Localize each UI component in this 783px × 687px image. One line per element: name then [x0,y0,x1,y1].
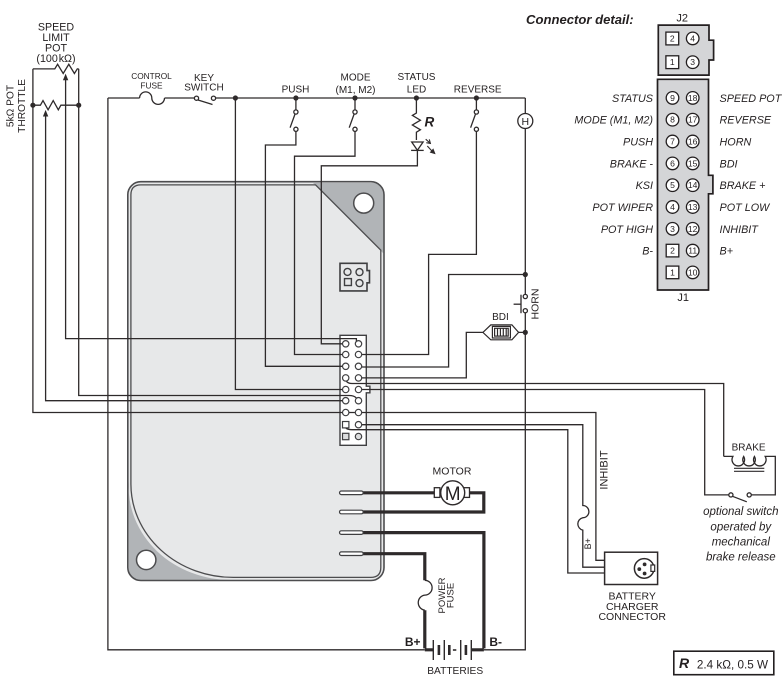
wire MODE to pin 8 [295,131,356,354]
svg-text:KSI: KSI [636,180,653,192]
controller mounting hole top-right [354,193,374,213]
node MODE junction [352,95,357,100]
wire B- thick to battery [362,533,484,650]
svg-text:9: 9 [670,93,675,103]
resistor R [412,98,420,140]
connector J2 on controller (2x2) [340,263,370,291]
wire throttle wiper to pin 4 [46,115,346,401]
svg-text:B+: B+ [405,635,421,649]
LED D1 [411,139,435,154]
svg-text:LED: LED [407,85,426,96]
power fuse F2 [418,580,432,610]
wire B+ thick with power fuse [362,554,425,581]
switch brake release [729,493,752,502]
svg-text:B+: B+ [583,538,593,549]
svg-text:brake release: brake release [706,551,776,563]
wire B+ pin 11 to charger [359,425,605,568]
svg-text:4: 4 [670,202,675,212]
key switch S1 [194,96,215,104]
svg-text:FUSE: FUSE [140,81,163,91]
wire speed pot wiper to pin 18 [66,79,357,344]
svg-text:BATTERIES: BATTERIES [427,666,483,677]
label control fuse [131,71,172,91]
pushbutton HORN [514,294,528,313]
node throttle left junction [30,103,35,108]
wire H drop [484,98,525,650]
svg-text:2: 2 [670,246,675,256]
label optional switch text [703,506,778,564]
svg-text:R: R [679,655,690,671]
connector detail right labels [720,93,783,258]
connector detail J1 box [658,79,713,290]
motor terminal tab B- [340,531,364,535]
svg-text:13: 13 [688,202,698,212]
label battery charger connector [598,591,666,624]
label 5k throttle [6,79,29,133]
motor M [362,481,484,512]
node PUSH junction [293,95,298,100]
connector detail J1 pins [666,92,699,279]
svg-text:MODE (M1, M2): MODE (M1, M2) [574,115,653,127]
svg-text:POT HIGH: POT HIGH [601,224,653,236]
svg-text:INHIBIT: INHIBIT [599,450,611,489]
svg-text:BDI: BDI [492,312,509,323]
label status led [398,72,436,96]
label mode [336,73,376,97]
connector J1 pins on controller [343,341,362,440]
wire BRAKE- pin 6 to coil [346,380,724,457]
svg-text:MODE: MODE [341,73,371,84]
wire top bus [108,97,525,99]
controller mounting hole bottom-left [137,550,156,569]
svg-text:optional switch: optional switch [703,506,778,518]
svg-text:Connector detail:: Connector detail: [526,12,634,27]
svg-text:THROTTLE: THROTTLE [17,79,28,133]
svg-text:7: 7 [670,137,675,147]
wire pot low rail to pin 13 [79,69,359,400]
svg-text:3: 3 [690,57,695,67]
svg-text:J1: J1 [677,292,689,304]
svg-text:6: 6 [670,158,675,168]
battery pack [433,640,471,660]
node REVERSE junction [474,95,479,100]
battery charger connector [605,552,658,584]
svg-text:SWITCH: SWITCH [184,83,223,94]
switch MODE [349,98,357,131]
wire left B+ loop [108,98,425,650]
R value box [674,651,774,675]
wire B- pin 2 to charger [346,428,605,573]
connector detail J2 box [658,25,713,75]
svg-text:HORN: HORN [530,289,542,320]
connector J1 on controller (2x9) [340,335,370,445]
svg-text:REVERSE: REVERSE [720,115,772,127]
svg-text:BDI: BDI [720,158,738,170]
svg-text:11: 11 [688,246,697,256]
node HORN top junction [523,272,528,277]
BDI gauge symbol [483,325,519,340]
node STATUS junction [414,95,419,100]
node BDI junction [523,330,528,335]
svg-text:14: 14 [688,180,698,190]
svg-text:REVERSE: REVERSE [454,85,502,96]
svg-text:PUSH: PUSH [282,85,310,96]
wire REVERSE to pin 17 [359,131,477,354]
wire pot high rail to pin 3 and INHIBIT pin 12 [33,69,605,560]
svg-text:3: 3 [670,224,675,234]
svg-text:INHIBIT: INHIBIT [720,224,760,236]
svg-text:PUSH: PUSH [623,137,653,149]
svg-text:18: 18 [688,93,698,103]
wire BRAKE+ pin 14 to switch [359,390,729,495]
label POWER FUSE rotated [437,577,457,613]
svg-text:10: 10 [688,267,698,277]
svg-text:8: 8 [670,115,675,125]
wire PUSH to pin 7 [265,131,345,366]
wire LED to pin 9 [321,150,417,343]
svg-text:STATUS: STATUS [398,72,436,83]
wire BDI to pin 15 [359,332,526,378]
svg-text:(M1, M2): (M1, M2) [336,85,376,96]
label key switch [184,73,223,94]
svg-text:17: 17 [688,115,698,125]
connector detail left labels [574,93,653,258]
potentiometer throttle pot [33,101,79,110]
svg-text:5: 5 [670,180,675,190]
svg-text:operated by: operated by [710,521,772,533]
svg-text:16: 16 [688,137,698,147]
svg-text:BRAKE +: BRAKE + [720,180,766,192]
potentiometer speed limit pot [33,64,79,73]
svg-text:POT WIPER: POT WIPER [592,202,653,214]
motor terminal tab M2 [340,510,364,514]
switch PUSH [290,98,298,131]
node KSI junction [233,95,238,100]
svg-text:4: 4 [690,34,695,44]
svg-text:BRAKE -: BRAKE - [610,158,654,170]
motor terminal tab M1 [340,491,364,495]
svg-text:(100 kΩ): (100 kΩ) [36,53,75,65]
svg-text:FUSE: FUSE [446,583,457,608]
svg-text:mechanical: mechanical [712,536,771,548]
svg-text:BRAKE: BRAKE [732,442,766,453]
svg-text:12: 12 [688,224,698,234]
wire HORN to pin 16 [359,275,526,368]
svg-text:1: 1 [670,57,675,67]
svg-text:STATUS: STATUS [612,93,654,105]
svg-text:B-: B- [489,635,502,649]
motor terminal tab B+ [340,552,364,556]
svg-text:H: H [522,116,530,128]
svg-text:B-: B- [642,246,653,258]
svg-text:B+: B+ [720,246,734,258]
wire KSI to pin 5 [235,98,345,390]
svg-text:J2: J2 [676,13,688,25]
svg-text:2: 2 [670,34,675,44]
svg-text:M: M [445,484,461,505]
svg-text:HORN: HORN [720,137,752,149]
svg-text:1: 1 [670,267,675,277]
connector detail J1 pin numbers [670,93,698,278]
label speed limit pot [36,22,75,66]
svg-text:POT LOW: POT LOW [720,202,772,214]
svg-text:MOTOR: MOTOR [433,466,472,478]
svg-text:CONTROL: CONTROL [131,71,172,81]
svg-text:2.4 kΩ, 0.5 W: 2.4 kΩ, 0.5 W [697,659,768,672]
connector detail J2 pin numbers [670,34,695,68]
svg-text:R: R [425,115,435,130]
switch REVERSE [471,98,479,131]
node throttle right junction [76,103,81,108]
svg-text:CONNECTOR: CONNECTOR [598,611,666,623]
controller U1 body [128,182,384,581]
svg-text:SPEED POT: SPEED POT [720,93,783,105]
brake coil [724,456,776,495]
horn H circle [518,114,533,129]
control fuse F1 [140,92,165,104]
svg-text:15: 15 [688,158,698,168]
svg-text:5kΩ POT: 5kΩ POT [6,85,17,127]
